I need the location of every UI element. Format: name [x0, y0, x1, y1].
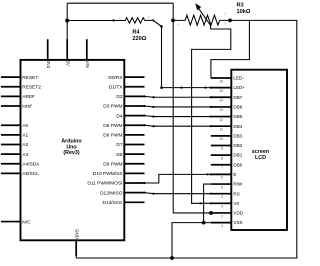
svg-text:DB5: DB5: [233, 114, 242, 119]
svg-text:15: 15: [219, 89, 223, 93]
svg-text:VDD: VDD: [233, 211, 243, 216]
svg-text:16: 16: [219, 79, 223, 83]
svg-text:(Rev3): (Rev3): [63, 150, 79, 156]
svg-text:1: 1: [221, 224, 223, 228]
svg-text:D2: D2: [116, 94, 122, 100]
svg-text:DB6: DB6: [233, 105, 242, 110]
svg-text:7: 7: [221, 166, 223, 170]
svg-text:A0: A0: [22, 123, 28, 129]
svg-text:220Ω: 220Ω: [132, 36, 146, 42]
svg-text:D9 PWM: D9 PWM: [103, 161, 122, 167]
svg-text:R4: R4: [132, 30, 140, 36]
svg-text:ioref: ioref: [22, 104, 32, 110]
svg-text:V0: V0: [233, 201, 239, 206]
svg-text:DB4: DB4: [233, 124, 242, 129]
svg-text:AREF: AREF: [22, 94, 35, 100]
svg-text:3V3: 3V3: [46, 60, 51, 68]
svg-text:R/W: R/W: [233, 182, 243, 187]
svg-text:13: 13: [219, 108, 223, 112]
svg-text:A4/SDA: A4/SDA: [22, 161, 40, 167]
svg-text:14: 14: [219, 99, 223, 103]
svg-text:D12/MISO: D12/MISO: [100, 190, 123, 196]
svg-text:E: E: [233, 172, 236, 177]
svg-text:RESET: RESET: [22, 75, 38, 81]
svg-text:D5 PWM: D5 PWM: [103, 123, 122, 129]
svg-text:VIN: VIN: [85, 60, 90, 67]
svg-text:2: 2: [221, 214, 223, 218]
svg-text:D7: D7: [116, 142, 122, 148]
svg-text:DB1: DB1: [233, 153, 242, 158]
svg-text:11: 11: [219, 128, 223, 132]
svg-text:GND: GND: [75, 229, 80, 239]
svg-text:VSS: VSS: [233, 220, 242, 225]
svg-text:RESET2: RESET2: [22, 84, 41, 90]
svg-text:A1: A1: [22, 133, 28, 139]
svg-text:D1/TX: D1/TX: [109, 84, 123, 90]
svg-text:6: 6: [221, 176, 223, 180]
svg-text:8: 8: [221, 156, 223, 160]
svg-text:DB0: DB0: [233, 162, 242, 167]
svg-text:10: 10: [219, 137, 223, 141]
svg-text:screen: screen: [252, 149, 269, 155]
svg-text:A2: A2: [22, 142, 28, 148]
svg-text:A3: A3: [22, 152, 28, 158]
svg-text:A5/SCL: A5/SCL: [22, 171, 39, 177]
svg-text:4: 4: [221, 195, 223, 199]
svg-text:D4: D4: [116, 113, 122, 119]
svg-text:5V: 5V: [66, 60, 71, 65]
svg-text:D3 PWM: D3 PWM: [103, 104, 122, 110]
svg-text:5: 5: [221, 185, 223, 189]
svg-text:D8: D8: [116, 152, 122, 158]
svg-text:RS: RS: [233, 191, 239, 196]
svg-text:DB2: DB2: [233, 143, 242, 148]
svg-text:R3: R3: [237, 2, 244, 8]
svg-text:N/C: N/C: [22, 219, 31, 225]
svg-text:D6 PWM: D6 PWM: [103, 133, 122, 139]
svg-text:3: 3: [221, 205, 223, 209]
svg-text:D10 PWM/SS: D10 PWM/SS: [93, 171, 123, 177]
svg-text:12: 12: [219, 118, 223, 122]
svg-text:D0/RX: D0/RX: [108, 75, 123, 81]
svg-text:DB3: DB3: [233, 133, 242, 138]
svg-text:LED-: LED-: [233, 76, 244, 81]
svg-text:LCD: LCD: [255, 155, 266, 161]
svg-text:LED+: LED+: [233, 85, 245, 90]
svg-text:9: 9: [221, 147, 223, 151]
svg-text:DB7: DB7: [233, 95, 242, 100]
svg-text:D13/SCK: D13/SCK: [103, 200, 124, 206]
svg-text:10kΩ: 10kΩ: [237, 9, 251, 15]
svg-text:D11 PWM/MOSI: D11 PWM/MOSI: [87, 181, 122, 187]
